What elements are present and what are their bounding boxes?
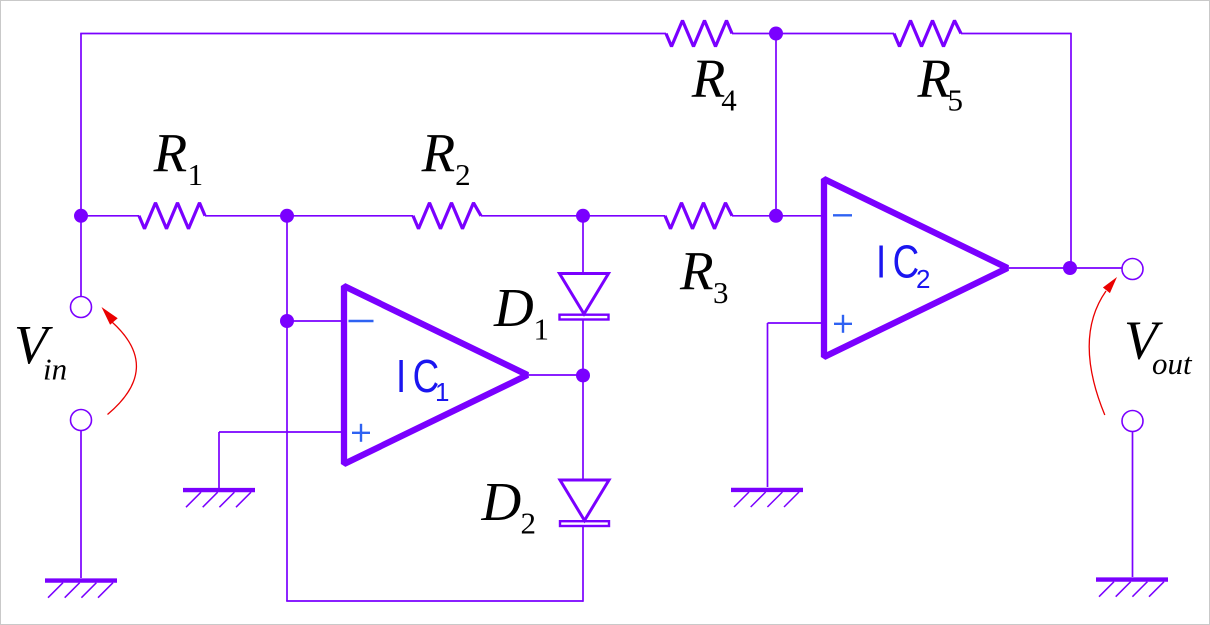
svg-text:R: R — [153, 123, 188, 184]
label R2 — [421, 123, 471, 193]
svg-text:3: 3 — [713, 275, 729, 310]
ground Vin — [45, 578, 117, 582]
wire bottom to D2 cathode — [582, 527, 584, 602]
wire node A to R1 — [81, 215, 139, 217]
op-amp IC1 — [344, 286, 528, 464]
terminal Vout - — [1122, 411, 1143, 432]
wire node E down to D2 — [582, 376, 584, 481]
resistor R3 — [665, 203, 732, 229]
svg-text:1: 1 — [188, 157, 204, 192]
wire R5 to right corner — [961, 33, 1071, 35]
terminal Vout + — [1122, 259, 1143, 280]
wire Vin terminal to ground — [80, 431, 82, 579]
label IC1 — [396, 350, 449, 407]
wire R3 to node D — [732, 215, 776, 217]
resistor R5 — [894, 21, 961, 47]
label R4 — [691, 48, 738, 118]
wire R2 to node C — [481, 215, 583, 217]
wire to IC1 inverting input — [287, 320, 344, 322]
label R1 — [153, 123, 204, 193]
terminal Vin - — [71, 410, 92, 431]
label Vin — [14, 314, 67, 387]
svg-text:R: R — [421, 123, 456, 184]
svg-text:out: out — [1152, 346, 1193, 381]
node E output IC1 — [576, 369, 590, 383]
wire right vertical down — [1070, 33, 1072, 268]
diode D1 cathode — [560, 315, 609, 320]
pin minus IC1 — [349, 320, 374, 322]
svg-text:D: D — [481, 471, 522, 532]
wire R1 to node B — [205, 215, 287, 217]
wire node A down to Vin terminal — [80, 216, 82, 297]
wire node C to R3 — [583, 215, 665, 217]
svg-text:R: R — [917, 48, 952, 109]
svg-text:2: 2 — [916, 264, 930, 294]
node C — [576, 209, 590, 223]
wire IC1 output — [529, 374, 583, 376]
wire IC1 non-inverting input — [219, 431, 344, 433]
svg-text:D: D — [493, 277, 534, 338]
svg-text:in: in — [43, 352, 67, 387]
wire IC2 + down to ground — [767, 323, 769, 487]
op-amp IC2 — [824, 179, 1008, 357]
diode D1 triangle — [560, 274, 609, 315]
node F output — [1063, 261, 1077, 275]
node A input — [74, 209, 88, 223]
wire Vout terminal to ground — [1132, 432, 1134, 578]
ground IC1 — [183, 488, 255, 492]
pin minus IC2 — [833, 214, 852, 216]
ground Vout — [1096, 577, 1168, 581]
svg-text:R: R — [679, 241, 714, 302]
resistor R2 — [413, 203, 481, 229]
diode D2 cathode — [560, 521, 609, 526]
svg-text:4: 4 — [721, 83, 737, 118]
svg-text:1: 1 — [534, 312, 550, 347]
wire node C down to D1 — [582, 216, 584, 274]
label IC2 — [876, 235, 930, 294]
wire node down to R3 node — [775, 34, 777, 216]
diode D2 triangle — [560, 480, 609, 521]
wire IC2 non-inverting input — [768, 322, 825, 324]
wire left vertical top — [80, 34, 82, 216]
label Vout — [1124, 309, 1193, 381]
resistor R4 — [666, 21, 732, 47]
pin plus IC1 — [352, 424, 370, 442]
label R3 — [679, 241, 729, 311]
svg-text:R: R — [691, 48, 726, 109]
pin plus IC2 — [834, 315, 852, 333]
wire IC1 + down to ground — [218, 432, 220, 488]
wire node B down (feedback leg) — [286, 216, 288, 601]
wire node B to R2 — [287, 215, 413, 217]
node D — [769, 209, 783, 223]
ground IC2 — [731, 488, 803, 492]
terminal Vin + — [71, 297, 92, 318]
svg-text:2: 2 — [455, 157, 471, 192]
node B2 inverting input junction — [280, 314, 294, 328]
node B — [280, 209, 294, 223]
svg-text:1: 1 — [435, 377, 449, 407]
wire R4 to node — [732, 33, 894, 35]
label D1 — [493, 277, 549, 347]
wire top bus left — [80, 33, 666, 35]
resistor R1 — [139, 203, 205, 229]
label D2 — [481, 471, 537, 541]
annotation arrow Vin — [102, 307, 137, 415]
label R5 — [917, 48, 964, 118]
wire node D to IC2 inverting input — [776, 215, 824, 217]
wire IC2 output — [1009, 267, 1122, 269]
svg-text:2: 2 — [521, 506, 537, 541]
wire D1 to node E — [582, 321, 584, 376]
annotation arrow Vout — [1089, 277, 1117, 415]
wire bottom feedback horizontal — [286, 600, 583, 602]
node top (R4/R5) — [769, 27, 783, 41]
svg-text:5: 5 — [948, 83, 964, 118]
